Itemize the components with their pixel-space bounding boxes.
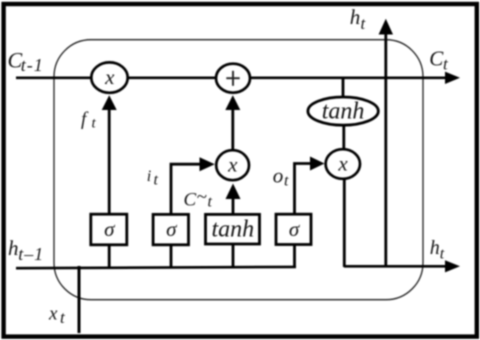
wire: x_t input vertical: [78, 266, 81, 333]
arrowhead: o_t: [310, 157, 325, 171]
svg-text:h: h: [350, 5, 361, 29]
arrowhead: i_t: [200, 157, 215, 171]
svg-text:o: o: [273, 163, 284, 187]
svg-text:h: h: [430, 237, 440, 259]
gate: sigma box 1 (forget): [91, 214, 127, 245]
node: add (circle with +): [216, 64, 250, 93]
gate: tanh box (candidate): [206, 214, 260, 244]
wire: output multiply node down to h line: [343, 178, 346, 267]
svg-text:σ: σ: [104, 217, 116, 241]
wire: h_t vertical up to top output: [384, 33, 387, 267]
svg-text:t–1: t–1: [18, 244, 44, 264]
tanh activation ellipse: [308, 97, 378, 125]
svg-text:t-1: t-1: [21, 55, 44, 75]
wire: f_t from sigma1 up to forget multiply node: [108, 108, 111, 215]
wire: sigma3 down to h line: [293, 244, 296, 267]
arrowhead: C_t output: [445, 72, 460, 84]
svg-text:C: C: [184, 190, 197, 211]
svg-text:tanh: tanh: [322, 99, 365, 125]
svg-text:x: x: [104, 65, 115, 89]
arrowhead: h_t top: [379, 19, 393, 35]
arrowhead: f_t: [102, 95, 117, 110]
node: forget gate multiply (circle with x): [91, 62, 127, 92]
svg-text:x: x: [48, 304, 58, 325]
svg-text:σ: σ: [166, 217, 178, 241]
wire: cell state line C (top horizontal): [16, 76, 447, 79]
svg-text:σ: σ: [289, 217, 301, 241]
arrowhead: h_t output right: [445, 260, 460, 272]
svg-text:t: t: [154, 172, 159, 189]
wire: sigma2 down to h line: [170, 245, 173, 267]
svg-text:x: x: [227, 153, 238, 177]
arrowhead: C~: [226, 184, 241, 200]
wire: tanh ellipse down to output multiply node: [342, 124, 345, 150]
svg-text:i: i: [147, 168, 151, 185]
svg-text:tanh: tanh: [211, 217, 254, 243]
svg-text:~: ~: [197, 187, 207, 208]
wire: h_t-1 input line (bottom horizontal, left segment): [16, 267, 296, 268]
node: input multiply (circle with x): [216, 150, 249, 180]
svg-text:x: x: [337, 151, 348, 175]
node: output multiply (circle with x): [326, 149, 360, 179]
wire: o_t elbow from sigma3 to output multiply node: [295, 164, 312, 215]
wire: h_t output line (bottom horizontal, right segment): [344, 265, 447, 268]
wire: sigma1 down to h line: [108, 245, 111, 267]
wire: C line branch down to tanh ellipse: [342, 78, 345, 97]
wire: i_t elbow from sigma2 to input multiply node: [171, 164, 201, 214]
svg-text:h: h: [8, 236, 19, 260]
svg-text:t: t: [284, 172, 289, 189]
svg-text:t: t: [208, 194, 213, 211]
svg-text:t: t: [440, 246, 445, 263]
wire: input multiply node up to add node: [231, 108, 234, 150]
wire: C~ candidate from tanh box up to input multiply node: [232, 197, 235, 215]
gate: sigma box 3 (output): [276, 214, 311, 244]
gate: sigma box 2 (input): [153, 214, 188, 244]
arrowhead: into add node: [225, 95, 240, 110]
wire: tanh box down to h line: [232, 245, 235, 267]
LSTM cell boundary (rounded rectangle): [54, 40, 423, 300]
